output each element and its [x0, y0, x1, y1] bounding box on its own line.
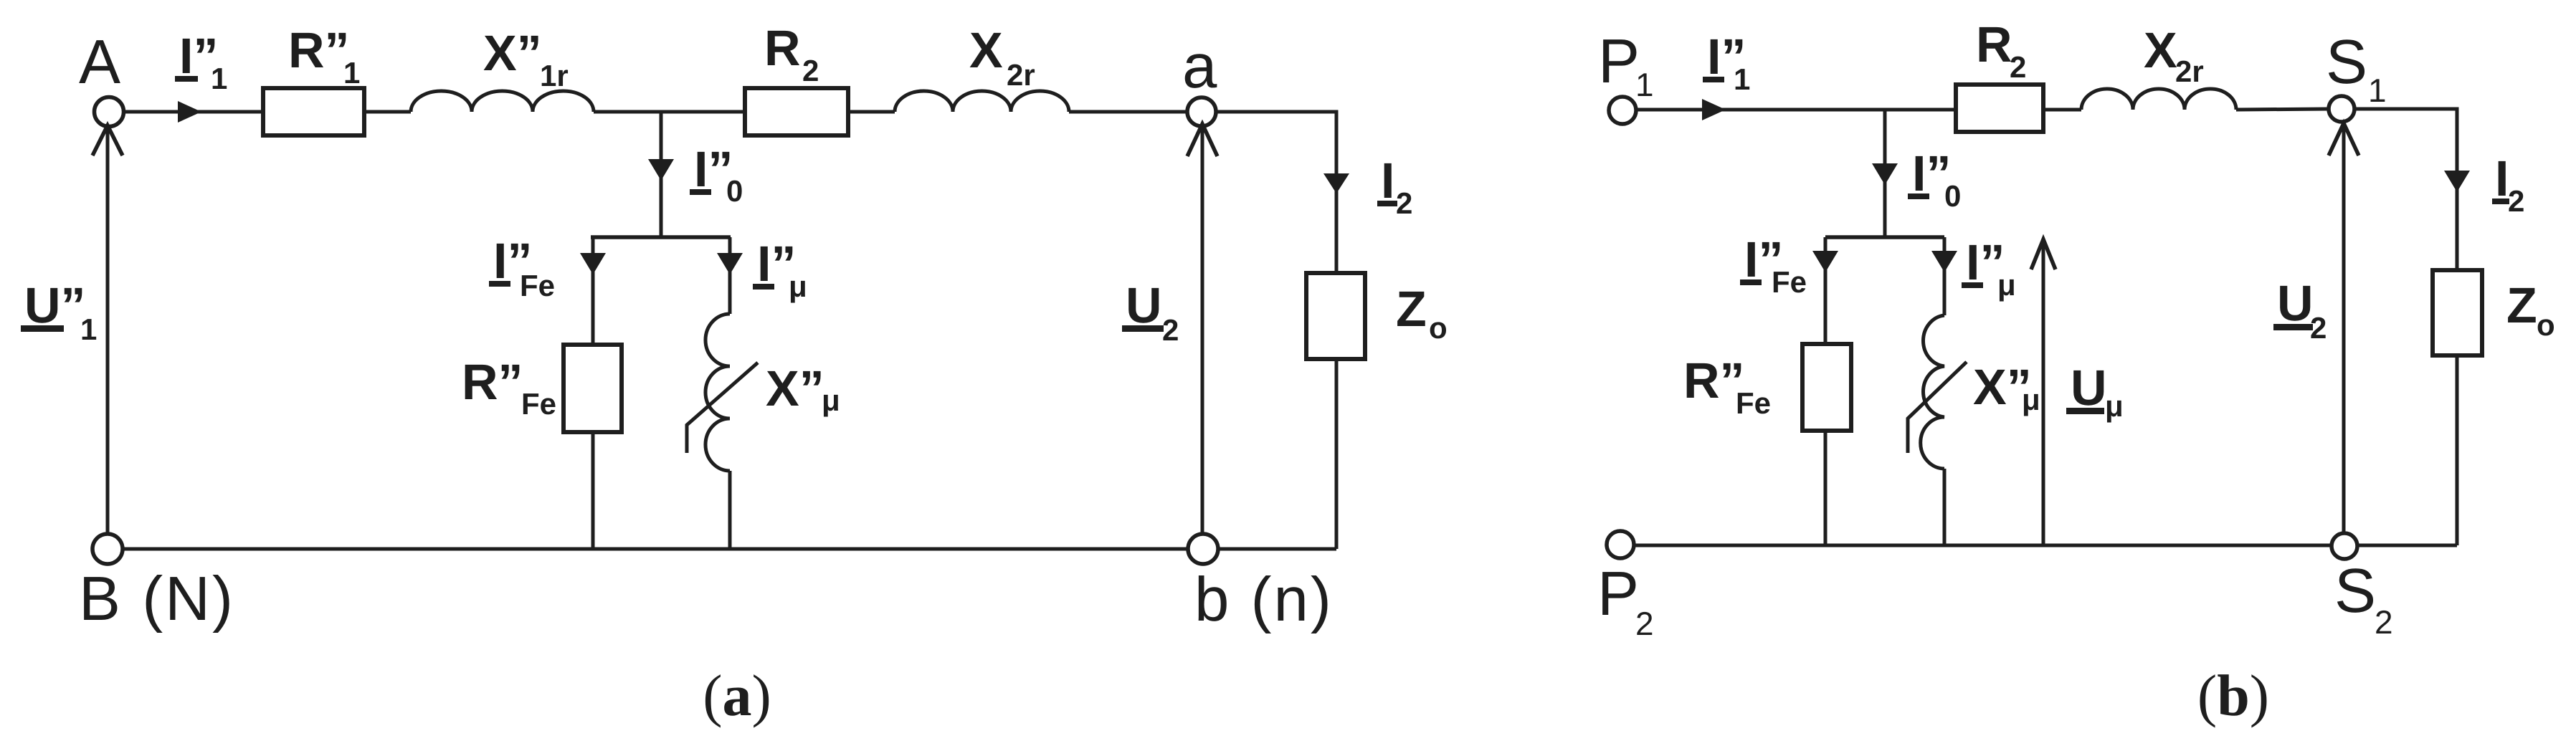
svg-text:(a): (a) — [703, 663, 771, 728]
mu branch upper (b) — [1943, 237, 1947, 315]
node b terminal circle — [1188, 534, 1218, 564]
bottom wire b to Zo — [1218, 547, 1336, 551]
Fe branch upper (b) — [1824, 237, 1828, 344]
svg-text:R”: R” — [462, 354, 523, 410]
svg-text:μ: μ — [2105, 389, 2124, 423]
svg-text:2: 2 — [2508, 184, 2524, 218]
voltage U2 arrowhead (a) — [1187, 124, 1217, 156]
node B terminal circle — [92, 534, 123, 564]
svg-text:(b): (b) — [2197, 663, 2269, 728]
bottom wire P2 to S2 — [1634, 544, 2332, 547]
svg-text:Z: Z — [1396, 281, 1427, 337]
Fe branch lower (a) — [591, 432, 595, 549]
current arrow I"mu (a) — [717, 253, 743, 274]
wire X2r to node a — [1069, 110, 1187, 114]
svg-text:Z: Z — [2506, 277, 2537, 333]
svg-text:2: 2 — [1162, 313, 1179, 347]
inductor X"1r — [411, 91, 594, 112]
voltage U2 line (b) — [2342, 125, 2346, 533]
svg-text:2: 2 — [802, 54, 819, 87]
svg-text:B (N): B (N) — [79, 564, 235, 633]
svg-text:X: X — [2144, 22, 2177, 78]
svg-text:b (n): b (n) — [1194, 565, 1334, 634]
svg-text:1: 1 — [211, 62, 227, 95]
voltage Umu line (b) — [2042, 242, 2045, 545]
inductor X2r (a) — [895, 91, 1069, 112]
svg-text:R”: R” — [288, 22, 350, 78]
svg-text:I: I — [2495, 150, 2509, 206]
voltage U2 line (a) — [1201, 126, 1204, 534]
resistor R2 box (a) — [745, 88, 848, 135]
current arrow I"Fe (b) — [1812, 251, 1838, 272]
voltage U"1 arrowhead — [92, 125, 123, 156]
wire node a to Zo corner — [1216, 112, 1336, 273]
T-bar (b) — [1825, 235, 1944, 239]
wire A to R"1 — [123, 110, 263, 114]
inductor X2r (b) — [2081, 89, 2236, 110]
svg-text:0: 0 — [726, 174, 743, 208]
node P1 terminal circle — [1609, 97, 1636, 124]
svg-text:I: I — [1381, 153, 1394, 209]
mu branch lower (a) — [728, 471, 732, 549]
wire R2 to X2r — [848, 110, 895, 114]
mu branch lower (b) — [1943, 469, 1947, 545]
svg-text:Fe: Fe — [521, 387, 556, 421]
svg-text:P: P — [1597, 559, 1641, 628]
svg-text:1r: 1r — [540, 59, 569, 92]
resistor R"Fe box (a) — [564, 345, 622, 432]
voltage U"1 line — [106, 128, 110, 534]
svg-text:2: 2 — [1635, 605, 1654, 642]
node S1 terminal circle — [2329, 96, 2354, 122]
wire X2r to S1 — [2236, 109, 2329, 110]
svg-text:2: 2 — [2010, 50, 2026, 84]
resistor R"Fe box (b) — [1802, 344, 1851, 431]
voltage U2 arrowhead (b) — [2329, 123, 2359, 156]
svg-text:0: 0 — [1944, 179, 1961, 213]
variable-reactance slash (a) — [687, 363, 758, 453]
variable-reactance slash (b) — [1908, 362, 1967, 453]
svg-text:1: 1 — [80, 312, 97, 346]
impedance Zo box (a) — [1306, 273, 1365, 359]
current arrow I"Fe (a) — [580, 253, 606, 274]
node P2 terminal circle — [1607, 531, 1634, 558]
wire S1 to Zo corner (b) — [2354, 109, 2457, 270]
wire R"1 to X"1r — [364, 110, 411, 114]
mu branch upper (a) — [728, 237, 732, 314]
svg-text:2: 2 — [2375, 603, 2393, 641]
bottom wire B to b — [123, 547, 1188, 551]
svg-text:2r: 2r — [1007, 58, 1035, 92]
svg-text:μ: μ — [2022, 383, 2040, 416]
svg-text:μ: μ — [1997, 268, 2016, 302]
bottom wire S2 to Zo (b) — [2357, 544, 2457, 547]
current arrow I2 (a) — [1323, 173, 1349, 193]
svg-text:X”: X” — [766, 360, 824, 416]
wire P1 to R2 — [1636, 108, 1956, 112]
T-bar (a) — [591, 235, 731, 239]
svg-text:Fe: Fe — [1772, 265, 1807, 299]
Fe branch lower (b) — [1824, 431, 1828, 545]
resistor R"1 box — [263, 88, 364, 135]
svg-text:2r: 2r — [2175, 54, 2204, 88]
svg-text:R: R — [1976, 16, 2012, 72]
current arrow I"1 (b) — [1702, 99, 1726, 120]
svg-text:o: o — [2537, 308, 2555, 342]
svg-text:1: 1 — [2368, 72, 2387, 109]
svg-text:X: X — [969, 22, 1003, 78]
svg-text:Fe: Fe — [1736, 386, 1771, 420]
shunt stem (b) — [1883, 110, 1887, 237]
resistor R2 box (b) — [1956, 85, 2043, 132]
current arrow I"0 (b) — [1872, 163, 1898, 185]
Fe branch upper (a) — [591, 237, 595, 345]
svg-text:μ: μ — [822, 383, 840, 417]
svg-text:R: R — [764, 20, 801, 76]
current arrow I"1 (a) — [178, 101, 201, 123]
svg-text:U: U — [2277, 275, 2314, 331]
svg-text:X”: X” — [483, 25, 542, 81]
svg-text:A: A — [79, 27, 123, 97]
svg-text:U: U — [2071, 360, 2107, 416]
voltage Umu arrowhead (b) — [2031, 239, 2055, 269]
shunt stem (a) — [660, 112, 663, 237]
current arrow I"mu (b) — [1931, 251, 1957, 272]
wire X"1r to R2 — [594, 110, 745, 114]
wire Zo to bottom — [1335, 359, 1339, 549]
svg-text:S: S — [2334, 556, 2378, 626]
impedance Zo box (b) — [2433, 270, 2482, 355]
svg-text:U: U — [1126, 277, 1162, 333]
svg-text:2: 2 — [2310, 311, 2327, 345]
node a circle — [1187, 97, 1216, 126]
svg-text:1: 1 — [1734, 62, 1750, 96]
svg-text:o: o — [1429, 311, 1448, 345]
svg-text:2: 2 — [1396, 186, 1412, 220]
svg-text:Fe: Fe — [520, 269, 555, 302]
wire Zo to bottom (b) — [2456, 355, 2459, 545]
svg-text:μ: μ — [789, 269, 807, 303]
svg-text:1: 1 — [1635, 66, 1654, 103]
svg-text:1: 1 — [343, 56, 360, 90]
node S2 terminal circle — [2332, 533, 2357, 559]
inductor X"mu coil (a) — [705, 314, 730, 471]
svg-text:U”: U” — [24, 277, 86, 333]
current arrow I"0 (a) — [648, 159, 674, 181]
svg-text:S: S — [2326, 27, 2370, 97]
svg-text:a: a — [1182, 32, 1219, 101]
wire R2 to X2r (b) — [2043, 108, 2081, 112]
node A terminal circle — [95, 97, 124, 127]
inductor X"mu coil (b) — [1921, 315, 1944, 469]
current arrow I2 (b) — [2444, 171, 2470, 192]
